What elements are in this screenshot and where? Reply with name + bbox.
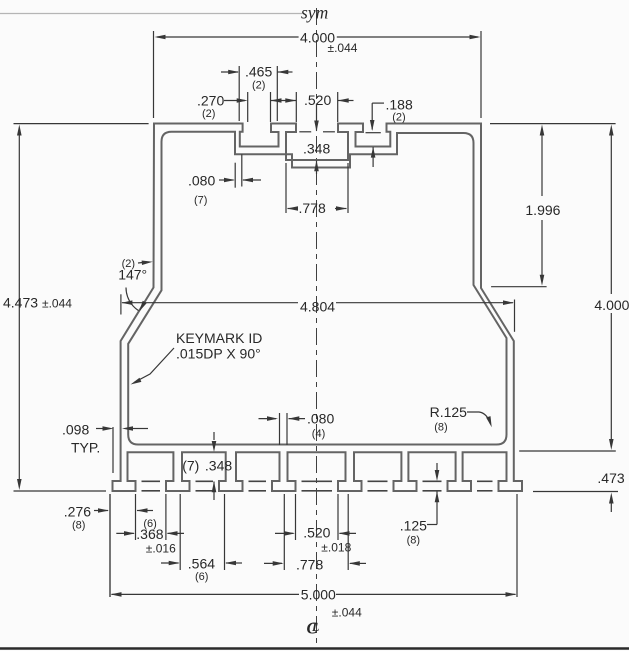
dim 4.804 - extension ticks — [121, 294, 515, 332]
dim .473 - extension lines — [519, 451, 618, 492]
dim 1.996 - extension lines — [490, 124, 616, 287]
profile inner cavity outline — [128, 132, 506, 445]
svg-text:.520: .520 — [303, 525, 330, 541]
svg-text:TYP.: TYP. — [71, 440, 100, 456]
svg-text:.188: .188 — [386, 97, 413, 113]
dim 4.473 - value text — [3, 295, 38, 311]
dim .348 channel - rim ticks — [299, 131, 335, 133]
dim .270 - arrows — [224, 98, 296, 103]
svg-text:.015DP X 90°: .015DP X 90° — [176, 346, 261, 362]
dim .188 - lower arrow — [371, 147, 376, 167]
dim .368 - count text — [143, 518, 156, 530]
dim .080 (4) - value text — [307, 411, 334, 427]
dim .188 - rim tick — [366, 132, 381, 134]
dim .778 bottom - arrows — [264, 561, 366, 566]
svg-text:.348: .348 — [303, 141, 330, 157]
dim .465 - value text — [245, 64, 272, 80]
dim .778 bottom - value text — [296, 557, 323, 573]
svg-text:KEYMARK ID: KEYMARK ID — [176, 330, 262, 346]
dim .564 - extension lines — [180, 494, 224, 570]
dim .564 - count text — [195, 571, 208, 583]
dim R.125 - value text — [430, 404, 468, 420]
note KEYMARK ID text — [176, 330, 262, 346]
dim .188 - leader — [370, 103, 384, 131]
dim .520 bottom - arrows — [275, 531, 356, 536]
svg-text:(8): (8) — [407, 535, 420, 547]
dim .098 - arrows — [96, 426, 148, 431]
svg-text:(2): (2) — [202, 108, 215, 120]
dim .270 - value text — [197, 93, 224, 109]
dim .270 - extension lines — [248, 92, 271, 122]
sym label — [301, 3, 328, 23]
svg-text:(8): (8) — [72, 520, 85, 532]
dim .348 slots - value text — [205, 458, 232, 474]
dim .188 - value text — [386, 97, 413, 113]
dim 4.000 top width - value text — [300, 30, 335, 46]
svg-text:.080: .080 — [307, 411, 334, 427]
svg-text:sym: sym — [301, 3, 328, 23]
dim 1.996 - value text — [525, 202, 560, 218]
dim .080 (7) - extension lines — [235, 154, 242, 187]
dim R.125 - count text — [434, 422, 447, 434]
dim 4.000 top width - extension lines — [154, 31, 482, 118]
dim .080 (7) - arrows — [219, 178, 261, 183]
dim .473 - arrows — [609, 493, 614, 513]
dim R.125 - leader — [467, 412, 492, 427]
dim .276 - count text — [72, 520, 85, 532]
svg-text:.125: .125 — [400, 518, 427, 534]
dim .520 top - arrow — [338, 98, 354, 103]
dim .778 top - arrows — [287, 206, 347, 211]
dim .520 bottom - tolerance text — [321, 541, 351, 555]
svg-text:.368: .368 — [136, 526, 163, 542]
svg-text:1.996: 1.996 — [525, 202, 560, 218]
dim .520 bottom - extension lines — [296, 494, 339, 540]
dim .564 - value text — [188, 556, 215, 572]
svg-text:.520: .520 — [304, 92, 331, 108]
dim .270 - count text — [202, 108, 215, 120]
svg-text:(6): (6) — [195, 571, 208, 583]
svg-text:L: L — [311, 620, 319, 634]
dim .778 top - value text — [299, 200, 326, 216]
svg-text:(7): (7) — [194, 195, 207, 207]
svg-text:147°: 147° — [118, 267, 147, 283]
svg-text:4.473: 4.473 — [3, 295, 38, 311]
dim .276 - value text — [64, 504, 91, 520]
scan border top line — [0, 13, 302, 15]
dim 5.000 - dim line and arrows — [111, 592, 517, 597]
note KEYMARK leader — [131, 348, 175, 385]
dim .520 bottom - value text — [303, 525, 330, 541]
dim .368 - tolerance text — [146, 542, 176, 556]
dim .125 - lower arrow — [427, 491, 439, 524]
svg-text:.098: .098 — [62, 422, 89, 438]
phantom dashes between foot pads — [142, 481, 493, 491]
dim .465 - extension lines — [239, 66, 277, 121]
centerline symbol CL — [307, 619, 320, 638]
dim 5.000 - extension lines — [110, 494, 517, 597]
dim .098 - extension line — [112, 427, 114, 473]
dim 5.000 - value text — [301, 587, 336, 603]
dim .348 slots - lower arrow — [212, 481, 217, 500]
dim .520 top - value text — [304, 92, 331, 108]
svg-text:.080: .080 — [188, 173, 215, 189]
svg-text:(4): (4) — [312, 428, 325, 440]
dim .465 - count text — [252, 80, 265, 92]
dim 4.000 right - dim line and arrows — [609, 125, 614, 451]
svg-text:.270: .270 — [197, 93, 224, 109]
svg-text:.276: .276 — [64, 504, 91, 520]
dim .098 - value text — [62, 422, 89, 438]
dim .080 (7) - value text — [188, 173, 215, 189]
dim 147 deg - angle arc — [126, 288, 147, 312]
dim 4.000 top width - tolerance text — [328, 41, 358, 55]
dim .778 bottom - extension lines — [284, 494, 348, 570]
dim 4.000 right - value text — [594, 297, 629, 313]
dim 4.473 - tolerance text — [42, 297, 72, 311]
dim .778 top - extension lines — [286, 163, 348, 213]
dim .098 - TYP text — [71, 440, 100, 456]
dim .080 (4) - count text — [312, 428, 325, 440]
dim 4.804 - value text — [300, 299, 335, 315]
profile outer outline (extrusion cross-section) — [113, 124, 523, 492]
dim .348 channel - lower arrow — [314, 160, 319, 174]
note KEYMARK depth text — [176, 346, 261, 362]
dim 4.804 - dim line and arrows — [121, 300, 514, 305]
svg-text:4.804: 4.804 — [300, 299, 335, 315]
dim .564 - arrows — [161, 561, 242, 566]
dim 4.000 top width - dim line and arrows — [155, 35, 481, 40]
dim 147 deg - leader arrow — [138, 261, 153, 266]
dim .473 - value text — [597, 470, 624, 486]
dim .465 - arrows — [221, 70, 293, 75]
dim 1.996 - dim line and arrows — [540, 125, 545, 286]
dim .125 - upper arrow — [435, 463, 440, 481]
svg-text:±.044: ±.044 — [42, 297, 72, 311]
svg-text:(8): (8) — [434, 422, 447, 434]
dim .188 - count text — [392, 112, 405, 124]
svg-text:(7): (7) — [182, 458, 199, 474]
dim .080 (7) - count text — [194, 195, 207, 207]
dim .368 - value text — [136, 526, 163, 542]
dim .520 top - center leader arrow — [314, 104, 319, 132]
svg-text:±.044: ±.044 — [328, 41, 358, 55]
dim .080 (4) - extension lines — [280, 413, 288, 445]
svg-text:(2): (2) — [252, 80, 265, 92]
svg-text:.564: .564 — [188, 556, 215, 572]
svg-text:R.125: R.125 — [430, 404, 468, 420]
svg-text:(2): (2) — [392, 112, 405, 124]
svg-text:.778: .778 — [296, 557, 323, 573]
dim .125 - count text — [407, 535, 420, 547]
dim .520 top - extension lines — [296, 92, 337, 122]
svg-text:±.018: ±.018 — [321, 541, 351, 555]
svg-text:.473: .473 — [597, 470, 624, 486]
dim 4.473 - extension lines — [14, 124, 149, 491]
dim .368 - arrows — [116, 531, 184, 536]
dim .348 channel - value text — [303, 141, 330, 157]
dim 4.473 - dim line and arrows — [17, 125, 22, 491]
svg-text:±.016: ±.016 — [146, 542, 176, 556]
dim .276 - extension lines — [110, 494, 136, 597]
dim .348 slots - count text — [182, 458, 199, 474]
dim 5.000 - tolerance text — [332, 606, 362, 620]
dim 147 deg - count text — [122, 258, 135, 270]
dim .276 - arrows — [94, 508, 153, 513]
centerline (sym axis) — [316, 8, 318, 646]
dim .348 slots - upper arrow — [212, 432, 217, 452]
dim .368 - extension line — [165, 494, 167, 540]
dim .125 - value text — [400, 518, 427, 534]
svg-text:5.000: 5.000 — [301, 587, 336, 603]
dim 147 deg - value text — [118, 267, 147, 283]
svg-text:.465: .465 — [245, 64, 272, 80]
svg-text:±.044: ±.044 — [332, 606, 362, 620]
scan border bottom bar — [0, 647, 629, 650]
svg-text:.778: .778 — [299, 200, 326, 216]
dim .080 (4) - arrows — [259, 416, 306, 421]
svg-text:4.000: 4.000 — [594, 297, 629, 313]
svg-text:.348: .348 — [205, 458, 232, 474]
